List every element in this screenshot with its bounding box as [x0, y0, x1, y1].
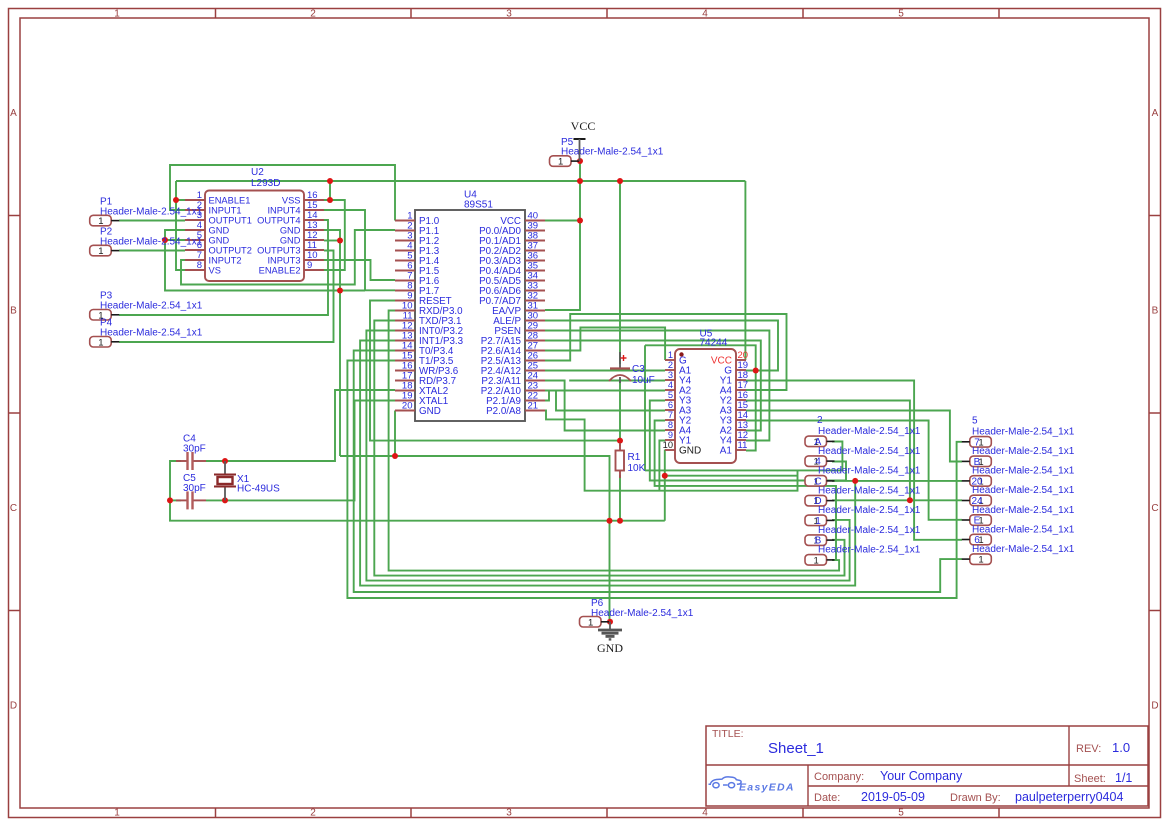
U4 pin 37 P0.2/AD2	[479, 241, 545, 257]
wire U5.Y1 drop	[659, 441, 665, 491]
U4 pin 6 P1.5	[395, 261, 440, 277]
svg-text:2: 2	[668, 360, 673, 370]
svg-text:10: 10	[663, 440, 673, 450]
U5 pin 6 A3	[665, 400, 692, 417]
U4 pin 17 RD/P3.7	[395, 371, 456, 387]
connector P4 label	[100, 318, 203, 339]
svg-text:2: 2	[817, 415, 823, 426]
connector P1 Header-Male-2.54_1x1	[90, 215, 120, 227]
wire U5.GND pin10 drop	[664, 451, 666, 521]
svg-text:Header-Male-2.54_1x1: Header-Male-2.54_1x1	[818, 545, 921, 556]
svg-text:HC-49US: HC-49US	[237, 484, 280, 495]
svg-text:8: 8	[668, 420, 673, 430]
svg-text:VCC: VCC	[571, 119, 596, 133]
junction C5 X1 bottom	[222, 497, 228, 503]
wire INT0/P3.2 to header row4 left	[366, 331, 849, 581]
wire U5.Y2 to header 1b	[655, 421, 836, 561]
svg-text:Date:: Date:	[814, 792, 840, 804]
svg-text:7: 7	[668, 410, 673, 420]
U5 pin 20 VCC	[711, 350, 748, 367]
U5 pin 11 A1	[720, 440, 748, 457]
svg-text:Your Company: Your Company	[880, 769, 963, 783]
wire VCC rail to C3	[619, 181, 621, 364]
svg-text:1: 1	[588, 617, 593, 628]
U2 pin 13 GND	[280, 220, 324, 235]
U2 pin 15 INPUT4	[267, 200, 324, 215]
svg-text:C3: C3	[632, 364, 645, 375]
svg-text:L293D: L293D	[251, 178, 280, 189]
wire U2.OUTPUT4 to P3	[119, 220, 328, 315]
connector P3 label	[100, 291, 203, 312]
wire VCC stem to U4.VCC and EA/VP	[545, 161, 580, 310]
junction U5 pin19 G	[753, 368, 759, 374]
connector header-right-3 label	[972, 485, 1075, 496]
connector P6 Header-Male-2.54_1x1	[580, 617, 610, 629]
junction VCC rail at 580	[577, 178, 583, 184]
wire XTAL2 net	[206, 390, 395, 461]
wire U4.VCC pin40	[545, 220, 580, 222]
junction U4 GND pin20	[392, 453, 398, 459]
wire U2.INPUT4 to U4.P1.7	[324, 210, 395, 290]
svg-text:OUTPUT4: OUTPUT4	[257, 215, 300, 225]
wire U5.Y3 to header 4	[650, 401, 846, 481]
wire TXD/P3.1 to header B	[374, 321, 844, 576]
svg-text:OUTPUT2: OUTPUT2	[209, 245, 252, 255]
junction U2 GND left	[162, 237, 168, 243]
U5 pin 17 A4	[720, 380, 748, 397]
title block	[706, 726, 1148, 806]
connector header-right-5 label	[972, 524, 1075, 535]
connector header-left-3 Header-Male-2.54_1x1	[805, 495, 835, 507]
svg-text:GND: GND	[679, 446, 701, 457]
wire U2 GND pin5 joint	[165, 239, 185, 241]
svg-text:Header-Male-2.54_1x1: Header-Male-2.54_1x1	[100, 328, 203, 339]
U4 pin 39 P0.0/AD0	[479, 221, 545, 237]
svg-text:Header-Male-2.54_1x1: Header-Male-2.54_1x1	[100, 301, 203, 312]
U2 pin 11 OUTPUT3	[257, 240, 324, 255]
connector header-left-4 label	[818, 505, 921, 516]
junction U4 VCC pin40	[577, 218, 583, 224]
connector P4 Header-Male-2.54_1x1	[90, 337, 120, 349]
svg-text:C: C	[1151, 503, 1158, 514]
U5 pin 3 Y4	[665, 370, 692, 387]
op-amp U2 L293D chip body	[205, 167, 304, 281]
svg-text:1: 1	[98, 246, 103, 257]
svg-text:Header-Male-2.54_1x1: Header-Male-2.54_1x1	[100, 236, 203, 247]
U4 pin 25 P2.4/A12	[481, 361, 545, 377]
junction C4 X1 top	[222, 458, 228, 464]
U5 pin 9 Y1	[665, 430, 692, 447]
svg-text:Sheet_1: Sheet_1	[768, 740, 824, 757]
U2 pin 14 OUTPUT4	[257, 210, 324, 225]
connector header-left-3 label	[818, 485, 921, 496]
svg-text:D: D	[1151, 701, 1158, 712]
U5 pin 13 A2	[720, 420, 748, 437]
U4 pin 18 XTAL2	[395, 381, 448, 397]
U4 pin 35 P0.4/AD4	[479, 261, 545, 277]
U4 pin 14 T0/P3.4	[395, 341, 454, 357]
U4 pin 4 P1.3	[395, 241, 440, 257]
svg-text:GND: GND	[209, 225, 230, 235]
U4 pin 19 XTAL1	[395, 391, 448, 407]
wire U2.VSS to U2.ENABLE2	[324, 200, 345, 270]
U4 pin 27 P2.6/A14	[481, 341, 545, 357]
connector header-right-6 Header-Male-2.54_1x1	[962, 554, 992, 566]
U4 pin 31 EA/VP	[492, 301, 545, 317]
connector P3 Header-Male-2.54_1x1	[90, 310, 120, 322]
U2 pin 3 OUTPUT1	[185, 210, 252, 225]
wire U4 GND to P6/GND	[340, 456, 610, 622]
svg-text:OUTPUT3: OUTPUT3	[257, 245, 300, 255]
resistor R1 10K	[616, 443, 646, 478]
wire VCC rail	[176, 180, 745, 182]
U5 pin 4 A2	[665, 380, 692, 397]
svg-text:2: 2	[310, 808, 316, 819]
junction U2 GND pin12	[337, 238, 343, 244]
U4 pin 1 P1.0	[395, 211, 440, 227]
junction P5 VCC stem	[577, 158, 583, 164]
U5 pin 19 G	[724, 360, 748, 377]
svg-text:Sheet:: Sheet:	[1074, 773, 1106, 785]
svg-text:9: 9	[307, 260, 312, 271]
svg-text:5: 5	[668, 390, 673, 400]
U5 pin 18 Y1	[720, 370, 748, 387]
U5 pin 15 A3	[720, 400, 748, 417]
U5 pin 14 Y3	[720, 410, 748, 427]
svg-text:1: 1	[114, 9, 120, 20]
svg-text:Drawn By:: Drawn By:	[950, 792, 1001, 804]
wire U5.Y4 pin3 stub wire	[569, 380, 665, 382]
svg-text:9: 9	[668, 430, 673, 440]
wire under U5 h470 to header A	[645, 442, 842, 471]
svg-text:P2.0/A8: P2.0/A8	[486, 406, 521, 417]
svg-text:Header-Male-2.54_1x1: Header-Male-2.54_1x1	[591, 608, 694, 619]
U4 pin 16 WR/P3.6	[395, 361, 459, 377]
svg-text:21: 21	[528, 401, 539, 412]
connector header-left-5 label	[818, 525, 921, 536]
U4 pin 10 RXD/P3.0	[395, 301, 463, 317]
wire U2 GND pins 4,5 vertical	[165, 230, 340, 291]
svg-text:89S51: 89S51	[464, 200, 493, 211]
connector P5 Header-Male-2.54_1x1	[550, 156, 580, 168]
wire P2.3/A11 to U5.A4	[545, 381, 665, 431]
svg-text:INPUT3: INPUT3	[267, 255, 300, 265]
connector header-left-6 label	[818, 545, 921, 556]
svg-text:C: C	[10, 503, 17, 514]
svg-text:Header-Male-2.54_1x1: Header-Male-2.54_1x1	[561, 147, 664, 158]
svg-text:Header-Male-2.54_1x1: Header-Male-2.54_1x1	[818, 525, 921, 536]
ground symbol GND	[597, 622, 623, 655]
connector P2 Header-Male-2.54_1x1	[90, 245, 120, 257]
U4 pin 12 INT0/P3.2	[395, 321, 463, 337]
svg-text:10K: 10K	[628, 463, 646, 474]
connector header-right-6 label	[972, 544, 1075, 555]
U5 pin 2 A1	[665, 360, 692, 377]
U4 pin 20 GND	[395, 401, 441, 417]
svg-text:1.0: 1.0	[1112, 740, 1130, 755]
svg-text:A: A	[10, 108, 17, 119]
U4 pin 40 VCC	[500, 211, 545, 227]
U4 pin 29 PSEN	[494, 321, 545, 337]
capacitor C5 30pF	[176, 473, 206, 510]
crystal X1 HC-49US	[214, 461, 280, 500]
wire R1 bottom to GND rail	[619, 475, 621, 521]
connector header-left-1 label	[818, 446, 921, 457]
wire U5.Y3r pin14 to header right4 E	[746, 421, 962, 520]
connector header-left-5 Header-Male-2.54_1x1	[805, 535, 835, 547]
connector P2 label	[100, 226, 203, 247]
wire P2.2/A10 to U5.A3	[545, 391, 665, 411]
svg-text:2: 2	[310, 9, 316, 20]
connector header-right-3 Header-Male-2.54_1x1	[962, 495, 992, 507]
junction R1 top RESET	[617, 438, 623, 444]
wire U2.VSS to VCC rail	[324, 181, 330, 200]
U5 pin 8 A4	[665, 420, 692, 437]
wire P2.7/A15 over U5	[545, 341, 761, 431]
svg-text:Header-Male-2.54_1x1: Header-Male-2.54_1x1	[818, 446, 921, 457]
wire PSEN over U5	[545, 331, 769, 441]
wire INT1/P3.3 to header C row	[360, 341, 855, 586]
junction U2 pin1 ENABLE1	[173, 197, 179, 203]
wire C5 left lead wire	[170, 499, 181, 501]
svg-text:5: 5	[898, 9, 904, 20]
svg-text:1: 1	[668, 350, 673, 360]
connector header-right-4 Header-Male-2.54_1x1	[962, 515, 992, 527]
wire VCC rail to U5.VCC pin20	[744, 181, 747, 360]
svg-text:11: 11	[738, 440, 748, 451]
junction U5 GND drop	[662, 473, 668, 479]
U2 pin 6 OUTPUT2	[185, 240, 252, 255]
connector header-right-1 label	[972, 446, 1075, 457]
svg-text:4: 4	[668, 380, 673, 390]
wire U5.Y1r pin18 to header right5	[746, 381, 962, 540]
connector header-left-4 Header-Male-2.54_1x1	[805, 515, 835, 527]
svg-text:GND: GND	[597, 641, 623, 655]
connector header-left-1 Header-Male-2.54_1x1	[805, 456, 835, 468]
svg-text:Header-Male-2.54_1x1: Header-Male-2.54_1x1	[818, 485, 921, 496]
wire U2.OUTPUT3 to P4	[119, 251, 334, 343]
svg-text:Header-Male-2.54_1x1: Header-Male-2.54_1x1	[818, 426, 921, 437]
wire P2.6/A14 over U5	[545, 314, 787, 390]
svg-text:1: 1	[114, 808, 120, 819]
U4 pin 22 P2.1/A9	[486, 391, 545, 407]
U2 pin 16 VSS	[282, 190, 324, 205]
wire U2.INPUT2 to U4.P1.1	[181, 230, 395, 285]
svg-text:2019-05-09: 2019-05-09	[861, 790, 925, 804]
svg-text:1: 1	[558, 157, 563, 168]
svg-text:INPUT2: INPUT2	[209, 255, 242, 265]
U2 pin 12 GND	[280, 230, 324, 245]
U4 pin 24 P2.3/A11	[481, 371, 545, 387]
U4 pin 36 P0.3/AD3	[479, 251, 545, 267]
svg-text:B: B	[1152, 306, 1159, 317]
svg-text:5: 5	[898, 808, 904, 819]
U4 pin 33 P0.6/AD6	[479, 281, 545, 297]
wire header C row horizontal	[832, 480, 962, 482]
wire U2.INPUT3 to U4.P1.6	[324, 260, 395, 280]
junction VSS pin16	[327, 197, 333, 203]
U4 pin 3 P1.2	[395, 231, 439, 247]
svg-text:GND: GND	[280, 225, 301, 235]
connector header-left-0 label	[817, 415, 921, 437]
svg-text:4: 4	[702, 9, 708, 20]
U2 pin 10 INPUT3	[267, 250, 324, 265]
wire P2.1/A9 to U5.A2	[545, 391, 665, 401]
U4 pin 8 P1.7	[395, 281, 439, 297]
U4 pin 15 T1/P3.5	[395, 351, 454, 367]
U2 pin 5 GND	[185, 230, 229, 245]
wire RXD/P3.0 to header row6 left	[389, 311, 839, 571]
U4 pin 38 P0.1/AD1	[479, 231, 545, 247]
capacitor C3 10uF polarized	[609, 352, 655, 386]
connector P5 label	[561, 137, 664, 158]
svg-text:Company:: Company:	[814, 771, 864, 783]
svg-text:GND: GND	[280, 235, 301, 245]
svg-text:REV:: REV:	[1076, 743, 1101, 755]
junction header D row	[907, 497, 913, 503]
wire C3 to RESET R1 node	[619, 380, 621, 446]
wire U4 GND pin20 drop	[394, 411, 396, 457]
wire net345 drop	[644, 345, 646, 470]
wire header D row horizontal	[832, 499, 962, 501]
svg-text:ENABLE1: ENABLE1	[209, 195, 251, 205]
svg-text:D: D	[10, 701, 17, 712]
wire T1/P3.5 to header right0	[347, 361, 962, 599]
svg-text:3: 3	[668, 370, 673, 380]
svg-text:10uF: 10uF	[632, 375, 655, 386]
svg-text:1: 1	[814, 555, 819, 566]
U2 pin 2 INPUT1	[185, 200, 242, 215]
connector header-right-4 label	[972, 505, 1075, 516]
U4 pin 21 P2.0/A8	[486, 401, 545, 417]
wire U5.Y2r pin16 to D row	[746, 401, 910, 501]
wire U2 GND pins 13,12	[324, 230, 340, 456]
svg-text:R1: R1	[628, 452, 641, 463]
U4 pin 30 ALE/P	[493, 311, 545, 327]
svg-text:1/1: 1/1	[1115, 771, 1132, 785]
connector P6 label	[591, 598, 694, 619]
U5 pin 7 Y2	[665, 410, 692, 427]
wire U2 pin1/pin8 net vertical	[176, 200, 185, 270]
wire C4 left lead wire	[170, 461, 181, 521]
U5 pin 1 G	[665, 350, 687, 367]
svg-text:Header-Male-2.54_1x1: Header-Male-2.54_1x1	[818, 505, 921, 516]
EasyEDA logo	[709, 777, 795, 794]
junction P6 GND	[607, 619, 613, 625]
svg-text:VSS: VSS	[282, 195, 301, 205]
IC U4 89S51 chip body	[415, 190, 525, 422]
svg-text:30pF: 30pF	[183, 444, 206, 455]
wire P2.4/A12 to U5.A1	[545, 370, 665, 372]
svg-text:30pF: 30pF	[183, 483, 206, 494]
connector header-left-2 label	[818, 466, 921, 477]
connector header-right-0 Header-Male-2.54_1x1	[962, 437, 992, 449]
junction VCC rail at C3	[617, 178, 623, 184]
svg-text:Header-Male-2.54_1x1: Header-Male-2.54_1x1	[818, 466, 921, 477]
svg-text:1: 1	[978, 555, 983, 566]
svg-text:ENABLE2: ENABLE2	[259, 265, 301, 275]
wire net345 vertical	[645, 345, 756, 450]
U5 pin 16 Y2	[720, 390, 748, 407]
svg-text:A1: A1	[720, 446, 733, 457]
connector header-left-0 Header-Male-2.54_1x1	[805, 436, 835, 448]
svg-text:GND: GND	[419, 406, 441, 417]
wire U5 pin19 G tap	[746, 370, 756, 372]
wire U5.GND under-chip branch	[665, 475, 798, 477]
connector header-left-6 Header-Male-2.54_1x1	[805, 555, 835, 567]
wire GND rail	[169, 520, 665, 522]
junction VSS rail	[327, 178, 333, 184]
U4 pin 28 P2.7/A15	[481, 331, 545, 347]
U2 pin 4 GND	[185, 220, 229, 235]
svg-text:TITLE:: TITLE:	[712, 728, 744, 740]
U5 pin 12 Y4	[720, 430, 748, 447]
svg-text:B: B	[10, 306, 17, 317]
connector header-left-2 Header-Male-2.54_1x1	[805, 476, 835, 488]
svg-text:EasyEDA: EasyEDA	[739, 782, 795, 794]
U5 pin 10 GND	[663, 440, 702, 457]
U2 pin 1 ENABLE1	[185, 190, 250, 205]
connector header-right-2 Header-Male-2.54_1x1	[962, 476, 992, 488]
svg-text:6: 6	[668, 400, 673, 410]
wire P2 to U2.OUTPUT2	[119, 250, 185, 252]
svg-text:8: 8	[197, 260, 202, 271]
svg-text:paulpeterperry0404: paulpeterperry0404	[1015, 790, 1123, 804]
junction GND rail at P6 drop	[607, 518, 613, 524]
svg-text:INPUT4: INPUT4	[267, 205, 300, 215]
U2 pin 8 VS	[185, 260, 221, 275]
U4 pin 26 P2.5/A13	[481, 351, 545, 367]
svg-text:GND: GND	[209, 235, 230, 245]
power symbol VCC	[571, 119, 596, 161]
wire U2 GND right to GND h	[340, 290, 365, 292]
wire VCC rail left drop	[175, 181, 177, 200]
junction header C row	[852, 478, 858, 484]
wire XTAL1 net	[206, 401, 395, 501]
svg-text:VS: VS	[209, 265, 221, 275]
U2 pin 9 ENABLE2	[259, 260, 324, 275]
svg-text:Header-Male-2.54_1x1: Header-Male-2.54_1x1	[100, 206, 203, 217]
connector header-right-1 Header-Male-2.54_1x1	[962, 456, 992, 468]
wire U5.A3r pin15 to header right1	[746, 411, 962, 462]
U4 pin 13 INT1/P3.3	[395, 331, 464, 347]
svg-text:20: 20	[402, 401, 413, 412]
wire U2.INPUT1 to U4.P1.0 net	[170, 165, 395, 221]
connector header-right-0 label	[972, 416, 1075, 438]
junction GND bottom left	[337, 288, 343, 294]
connector P1 label	[100, 196, 203, 217]
svg-text:INPUT1: INPUT1	[209, 205, 242, 215]
svg-text:5: 5	[972, 416, 978, 427]
svg-text:3: 3	[506, 808, 512, 819]
connector header-right-5 Header-Male-2.54_1x1	[962, 534, 992, 546]
svg-text:74244: 74244	[700, 338, 728, 349]
svg-text:3: 3	[506, 9, 512, 20]
wire U4.RESET to R1	[370, 301, 620, 441]
svg-text:1: 1	[98, 337, 103, 348]
U2 pin 7 INPUT2	[185, 250, 242, 265]
U4 pin 11 TXD/P3.1	[395, 311, 461, 327]
svg-text:A: A	[1152, 108, 1159, 119]
wire P1 to U2.OUTPUT1	[119, 220, 185, 222]
junction C5 left GND	[167, 497, 173, 503]
U4 pin 9 RESET	[395, 291, 452, 307]
U5 pin 5 Y3	[665, 390, 692, 407]
U4 pin 7 P1.6	[395, 271, 440, 287]
U4 pin 32 P0.7/AD7	[479, 291, 545, 307]
wire T0/P3.4 to header right6	[354, 351, 962, 593]
svg-text:4: 4	[702, 808, 708, 819]
